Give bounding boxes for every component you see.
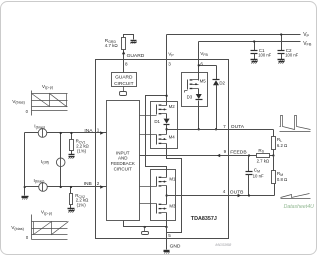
D2 label	[219, 81, 225, 86]
watermark	[284, 204, 315, 210]
resistor RL	[272, 137, 276, 150]
svg-text:1: 1	[97, 128, 100, 133]
wire M4 source to ground bus	[167, 144, 182, 233]
diode D2	[213, 80, 220, 86]
node VP label	[303, 32, 309, 38]
svg-text:100 nF: 100 nF	[285, 53, 298, 58]
INA waveform zero label	[26, 109, 29, 114]
svg-text:D2: D2	[219, 81, 225, 86]
svg-text:D3: D3	[187, 95, 193, 100]
svg-text:CIRCUIT: CIRCUIT	[114, 81, 134, 87]
wire D3 to OUTA	[198, 101, 200, 131]
transistor M1	[140, 177, 167, 187]
capacitor CM	[246, 154, 253, 195]
wire D1 to M4	[165, 125, 167, 135]
RS label	[257, 148, 270, 164]
pin 7 number	[223, 124, 226, 129]
pin 9 number	[224, 149, 227, 154]
resistor RS	[257, 154, 270, 158]
svg-text:4: 4	[223, 189, 226, 194]
resistor RGRD	[122, 35, 134, 50]
capacitor C2	[278, 33, 285, 59]
svg-text:GUARD: GUARD	[115, 75, 133, 81]
wire M3 source to ground bus	[166, 213, 168, 227]
wire VP branch to M1	[146, 95, 168, 178]
D3 label	[187, 95, 193, 100]
ground bus substrate pad	[142, 227, 149, 235]
pin 6 VFB label	[200, 51, 208, 57]
wire VP rail	[167, 34, 301, 36]
svg-text:TDA8357J: TDA8357J	[191, 216, 217, 222]
wire INB line	[25, 186, 107, 188]
M1 label	[169, 177, 176, 182]
wire M1 source to M3	[165, 186, 167, 205]
ground C1	[251, 60, 258, 64]
wire pin 8 guard riser	[122, 50, 125, 73]
pin 4 number	[223, 189, 226, 194]
wire RS to RL-RM junction	[270, 154, 275, 156]
transistor M4	[140, 134, 167, 144]
svg-text:9: 9	[224, 149, 227, 154]
guard circuit block	[112, 73, 137, 87]
svg-text:D1: D1	[154, 119, 160, 124]
pin 2 number	[97, 181, 100, 186]
transistor M5	[185, 79, 199, 92]
svg-text:2.7 kΩ: 2.7 kΩ	[257, 159, 270, 164]
transistor M2	[140, 104, 167, 115]
ground left bias	[22, 197, 29, 200]
output stage B box	[151, 170, 176, 221]
node GUARD label	[127, 53, 145, 59]
svg-text:M1: M1	[169, 177, 176, 182]
RM label	[277, 171, 288, 182]
svg-text:INA: INA	[84, 128, 93, 134]
D1 label	[154, 119, 160, 124]
INB waveform V(bias) label	[11, 225, 24, 231]
CM label	[253, 168, 264, 179]
INA waveform V(bias) label	[12, 99, 25, 105]
ground RCV1	[69, 155, 75, 159]
node GND label	[170, 244, 181, 250]
svg-text:10 nF: 10 nF	[253, 174, 264, 179]
svg-text:7: 7	[223, 124, 226, 129]
svg-text:M2: M2	[169, 104, 176, 109]
wire FEEDB line	[140, 154, 257, 157]
wire RL to junction	[273, 150, 275, 156]
svg-text:5: 5	[168, 233, 171, 238]
pin 8 number	[125, 61, 128, 66]
svg-text:8: 8	[125, 61, 128, 66]
node OUTB label	[230, 190, 244, 196]
svg-text:OUTA: OUTA	[231, 124, 245, 130]
pin 5 number	[168, 233, 171, 238]
diode D3	[196, 94, 203, 100]
svg-text:AND: AND	[118, 156, 128, 161]
ground pin 5	[164, 251, 170, 254]
INB drive waveform graph	[32, 215, 69, 240]
resistor RCV1	[70, 132, 74, 155]
wire internal ground bus	[124, 221, 168, 229]
OUTA flyback waveform	[280, 116, 311, 132]
diode D1	[164, 119, 170, 125]
M5 label	[200, 79, 207, 84]
op-amp U1 TDA8357J IC outline	[96, 60, 229, 239]
wire D2 to OUTA	[215, 85, 217, 131]
pin 3 number	[168, 62, 171, 67]
flyback stage box	[182, 73, 208, 107]
svg-text:CIRCUIT: CIRCUIT	[114, 166, 132, 171]
ground RGRD	[131, 41, 137, 44]
svg-text:(1%): (1%)	[77, 148, 87, 153]
wire pin 3 VP riser	[166, 35, 168, 106]
wire M2 source to D1	[166, 114, 168, 119]
INB arrow	[100, 185, 103, 188]
svg-text:OUTB: OUTB	[230, 190, 244, 196]
OUTB sawtooth waveform	[281, 194, 311, 199]
pin 6 number	[200, 62, 203, 67]
wire OUTB line	[167, 184, 275, 198]
svg-text:GND: GND	[170, 244, 181, 250]
current source I(dif)	[56, 158, 65, 167]
M4 label	[169, 134, 176, 139]
ground RCV2	[68, 209, 75, 213]
wire D2 link	[198, 64, 217, 79]
svg-text:INPUT: INPUT	[116, 150, 130, 155]
svg-text:M3: M3	[169, 204, 176, 209]
svg-text:GUARD: GUARD	[127, 53, 145, 59]
C2 label	[285, 48, 298, 58]
node INA label	[84, 128, 93, 134]
RCV2 label	[75, 193, 89, 208]
wire INA line	[25, 132, 107, 134]
wire VFB rail	[199, 41, 301, 43]
svg-text:2: 2	[97, 181, 100, 186]
svg-text:100 nF: 100 nF	[258, 53, 271, 58]
pin 3 VP label	[168, 51, 174, 57]
svg-text:M5: M5	[200, 79, 207, 84]
wire M5 source to D3	[198, 89, 200, 95]
U1 part label	[191, 216, 217, 222]
svg-text:3: 3	[168, 62, 171, 67]
wire pin 5 GND lead	[166, 227, 168, 250]
svg-text:6.2 Ω: 6.2 Ω	[277, 143, 288, 148]
svg-text:FEEDBACK: FEEDBACK	[111, 161, 135, 166]
svg-text:MGS958: MGS958	[215, 242, 232, 247]
guard substrate pad	[120, 87, 127, 96]
I(dif) label	[41, 159, 50, 165]
RCV1 label	[76, 139, 90, 154]
figure code MGS958	[215, 242, 232, 247]
INA drive waveform graph	[32, 91, 68, 116]
C1 label	[258, 48, 271, 58]
node OUTA label	[231, 124, 245, 130]
transistor M3	[140, 204, 167, 214]
svg-text:4.7 kΩ: 4.7 kΩ	[105, 43, 119, 48]
I(bias) upper label	[34, 124, 46, 130]
capacitor C1	[251, 40, 258, 59]
INA waveform V(p-p) label	[42, 84, 54, 90]
current source I(bias) upper	[38, 129, 47, 138]
svg-text:FEEDB: FEEDB	[230, 149, 246, 155]
RGRD label	[105, 38, 119, 48]
wire pin 6 VFB riser	[198, 42, 200, 81]
pin 1 number	[97, 128, 100, 133]
M3 label	[169, 204, 176, 209]
wire OUTA line	[167, 130, 274, 137]
ground C2	[278, 60, 285, 64]
svg-text:(1%): (1%)	[77, 203, 87, 208]
M2 label	[169, 104, 176, 109]
wire I(dif) branch	[60, 132, 62, 188]
resistor RCV2	[70, 186, 73, 209]
svg-text:INB: INB	[84, 181, 92, 187]
INB waveform zero label	[26, 235, 29, 240]
INB waveform V(p-p) label	[41, 209, 53, 215]
svg-text:M4: M4	[169, 134, 176, 139]
node VFB label	[303, 41, 312, 47]
input and feedback circuit block	[107, 101, 140, 221]
svg-text:Datasheet4U: Datasheet4U	[284, 204, 315, 210]
wire left bias vertical	[24, 133, 26, 196]
node INB label	[84, 181, 92, 187]
resistor RM	[272, 156, 276, 184]
RL label	[277, 137, 288, 148]
node FEEDB label	[230, 149, 246, 155]
current source I(bias) lower	[39, 183, 48, 192]
output stage A box	[151, 102, 178, 149]
svg-text:0.8 Ω: 0.8 Ω	[277, 177, 288, 182]
I(bias) lower label	[34, 178, 46, 184]
INA arrow	[100, 131, 103, 134]
